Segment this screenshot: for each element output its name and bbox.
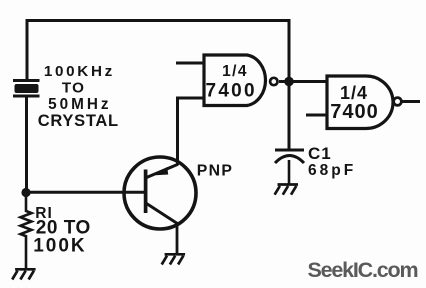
svg-text:7400: 7400 xyxy=(330,101,379,123)
svg-text:CRYSTAL: CRYSTAL xyxy=(38,112,119,130)
svg-text:7400: 7400 xyxy=(205,81,256,102)
svg-text:68pF: 68pF xyxy=(308,162,356,179)
svg-text:SeekIC.com: SeekIC.com xyxy=(308,258,418,282)
svg-text:1/4: 1/4 xyxy=(222,63,248,80)
svg-text:TO: TO xyxy=(62,80,85,97)
svg-text:100KHz: 100KHz xyxy=(44,63,115,80)
svg-text:PNP: PNP xyxy=(197,163,233,180)
svg-text:50MHz: 50MHz xyxy=(48,96,111,113)
svg-text:100K: 100K xyxy=(33,236,86,257)
svg-text:C1: C1 xyxy=(308,144,332,163)
